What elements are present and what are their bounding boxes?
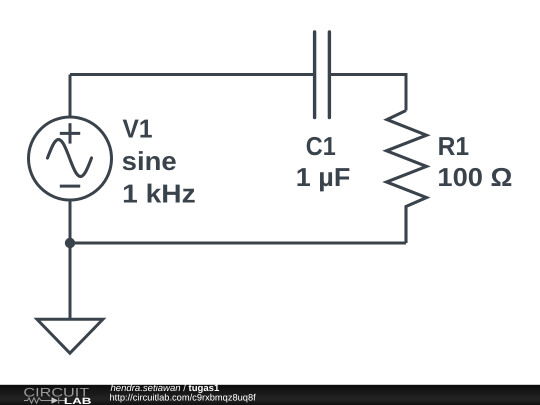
svg-text:V1: V1: [123, 114, 153, 144]
svg-text:1 µF: 1 µF: [296, 162, 351, 192]
svg-text:1 kHz: 1 kHz: [122, 179, 195, 209]
svg-text:LAB: LAB: [64, 396, 92, 405]
svg-text:sine: sine: [122, 146, 177, 176]
svg-text:C1: C1: [306, 131, 336, 161]
svg-text:R1: R1: [438, 131, 470, 161]
svg-text:http://circuitlab.com/c9rxbmqz: http://circuitlab.com/c9rxbmqz8uq8f: [110, 392, 257, 402]
svg-text:100 Ω: 100 Ω: [437, 162, 512, 192]
